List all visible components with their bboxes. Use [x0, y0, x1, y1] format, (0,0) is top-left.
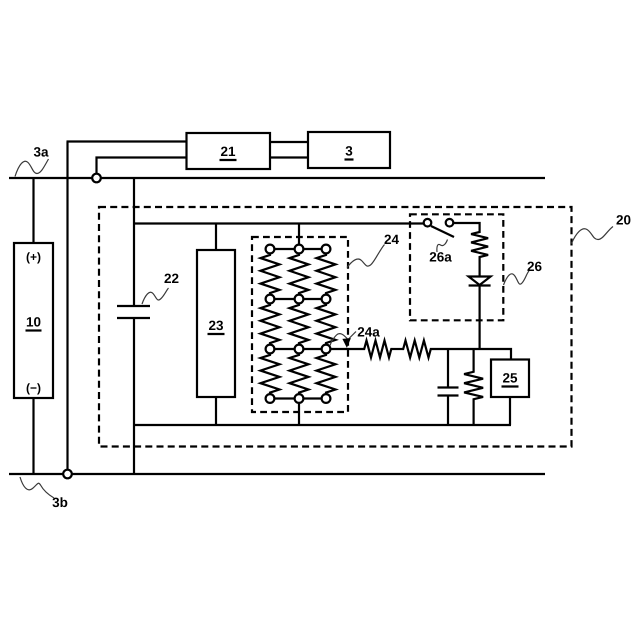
- svg-text:(−): (−): [26, 381, 41, 395]
- svg-text:(+): (+): [26, 250, 41, 264]
- label 22: [142, 271, 179, 304]
- wire grid feed bottom: [298, 403, 300, 425]
- wire resistor to diode: [479, 258, 481, 277]
- svg-text:3: 3: [345, 144, 353, 159]
- block 25: [491, 360, 529, 398]
- resistor grid col1 row3: [261, 353, 280, 394]
- wire to block 23 top: [215, 224, 217, 251]
- battery plus terminal label: [26, 250, 41, 264]
- dashed box 24: [252, 237, 348, 412]
- node grid r2c1: [266, 295, 275, 304]
- wire 21-3 lower: [270, 156, 308, 158]
- resistor grid col3 row2: [317, 303, 336, 344]
- resistor grid col1 row1: [261, 253, 280, 294]
- wire internal bottom rail: [134, 424, 511, 426]
- wire Rb to block 25: [432, 349, 511, 360]
- label 25: [502, 371, 519, 387]
- node grid r1c2: [295, 245, 304, 254]
- node grid r4c3: [322, 394, 331, 403]
- switch 26a pole: [424, 219, 432, 227]
- wire tap 24a to R chain: [330, 348, 363, 350]
- resistor grid col2 row1: [290, 253, 309, 294]
- power line 3b (bottom bus): [9, 473, 545, 475]
- label 26: [504, 259, 543, 285]
- svg-text:25: 25: [502, 371, 518, 386]
- label 3: [345, 144, 354, 160]
- label 10: [26, 315, 42, 331]
- wire grid feed top: [298, 224, 300, 245]
- node grid r4c1: [266, 394, 275, 403]
- wire cap branch bottom: [447, 396, 449, 426]
- svg-text:3b: 3b: [52, 495, 68, 510]
- node grid r2c2: [295, 295, 304, 304]
- dashed box 26: [410, 214, 503, 320]
- wire Ra-Rb: [393, 348, 403, 350]
- block 21: [187, 133, 271, 169]
- wire battery top: [32, 178, 34, 243]
- svg-text:24: 24: [384, 232, 400, 247]
- resistor grid col1 row2: [261, 303, 280, 344]
- svg-text:26a: 26a: [429, 250, 452, 265]
- block 23: [197, 250, 235, 397]
- battery 10: [14, 243, 53, 398]
- svg-text:20: 20: [616, 213, 631, 228]
- dashed enclosure 20: [99, 207, 572, 447]
- resistor vertical branch: [464, 349, 483, 425]
- svg-text:22: 22: [164, 271, 179, 286]
- switch 26a throw: [446, 219, 454, 227]
- wire diode to tap rail: [479, 286, 481, 350]
- wire battery bottom: [32, 398, 34, 474]
- node on bottom bus: [63, 470, 72, 479]
- wire switch to resistor: [454, 223, 480, 231]
- wire internal top rail: [134, 222, 423, 224]
- block 3: [308, 132, 390, 168]
- wire left vertical: [66, 142, 68, 470]
- wire 21-3 upper: [270, 141, 308, 143]
- node grid r1c3: [322, 245, 331, 254]
- resistor Ra: [363, 341, 393, 358]
- label 26a: [429, 240, 452, 265]
- resistor grid col3 row3: [317, 353, 336, 394]
- resistor grid col2 row2: [290, 303, 309, 344]
- label 3b: [20, 477, 68, 510]
- diode D1: [469, 277, 491, 286]
- wire from top node: [97, 158, 187, 174]
- wire from block 23 bottom: [215, 397, 217, 425]
- wire block 25 bottom: [509, 397, 511, 425]
- label 23: [208, 318, 225, 334]
- svg-text:10: 10: [26, 315, 41, 330]
- svg-text:23: 23: [208, 318, 224, 333]
- svg-text:24a: 24a: [357, 325, 380, 340]
- resistor grid col3 row1: [317, 253, 336, 294]
- battery minus terminal label: [26, 381, 41, 395]
- label 20: [572, 213, 632, 244]
- label 3a: [15, 145, 49, 177]
- node grid r4c2: [295, 394, 304, 403]
- node on top bus: [92, 174, 101, 183]
- wire main vertical: [133, 178, 135, 474]
- node grid r3c1: [266, 345, 275, 354]
- wire upper to controller: [67, 140, 187, 142]
- node grid r3c3: [322, 345, 331, 354]
- switch 26a blade: [431, 226, 454, 237]
- svg-text:26: 26: [527, 259, 543, 274]
- wire cap branch top: [447, 349, 449, 388]
- node grid r1c1: [266, 245, 275, 254]
- label 24: [347, 232, 399, 268]
- power line 3a (top bus): [9, 177, 545, 179]
- capacitor C2: [438, 388, 459, 396]
- wire grid row 4: [274, 397, 321, 399]
- resistor in box 26: [471, 231, 488, 258]
- svg-text:21: 21: [220, 144, 236, 159]
- svg-text:3a: 3a: [33, 145, 49, 160]
- wire grid row 1: [274, 248, 321, 250]
- resistor grid col2 row3: [290, 353, 309, 394]
- resistor Rb: [402, 341, 432, 358]
- wire grid row 3: [274, 348, 321, 350]
- label 21: [220, 144, 237, 160]
- wire grid row 2: [274, 298, 321, 300]
- capacitor 22: [117, 306, 150, 318]
- node grid r3c2: [295, 345, 304, 354]
- label 24a: [330, 325, 380, 346]
- node grid r2c3: [322, 295, 331, 304]
